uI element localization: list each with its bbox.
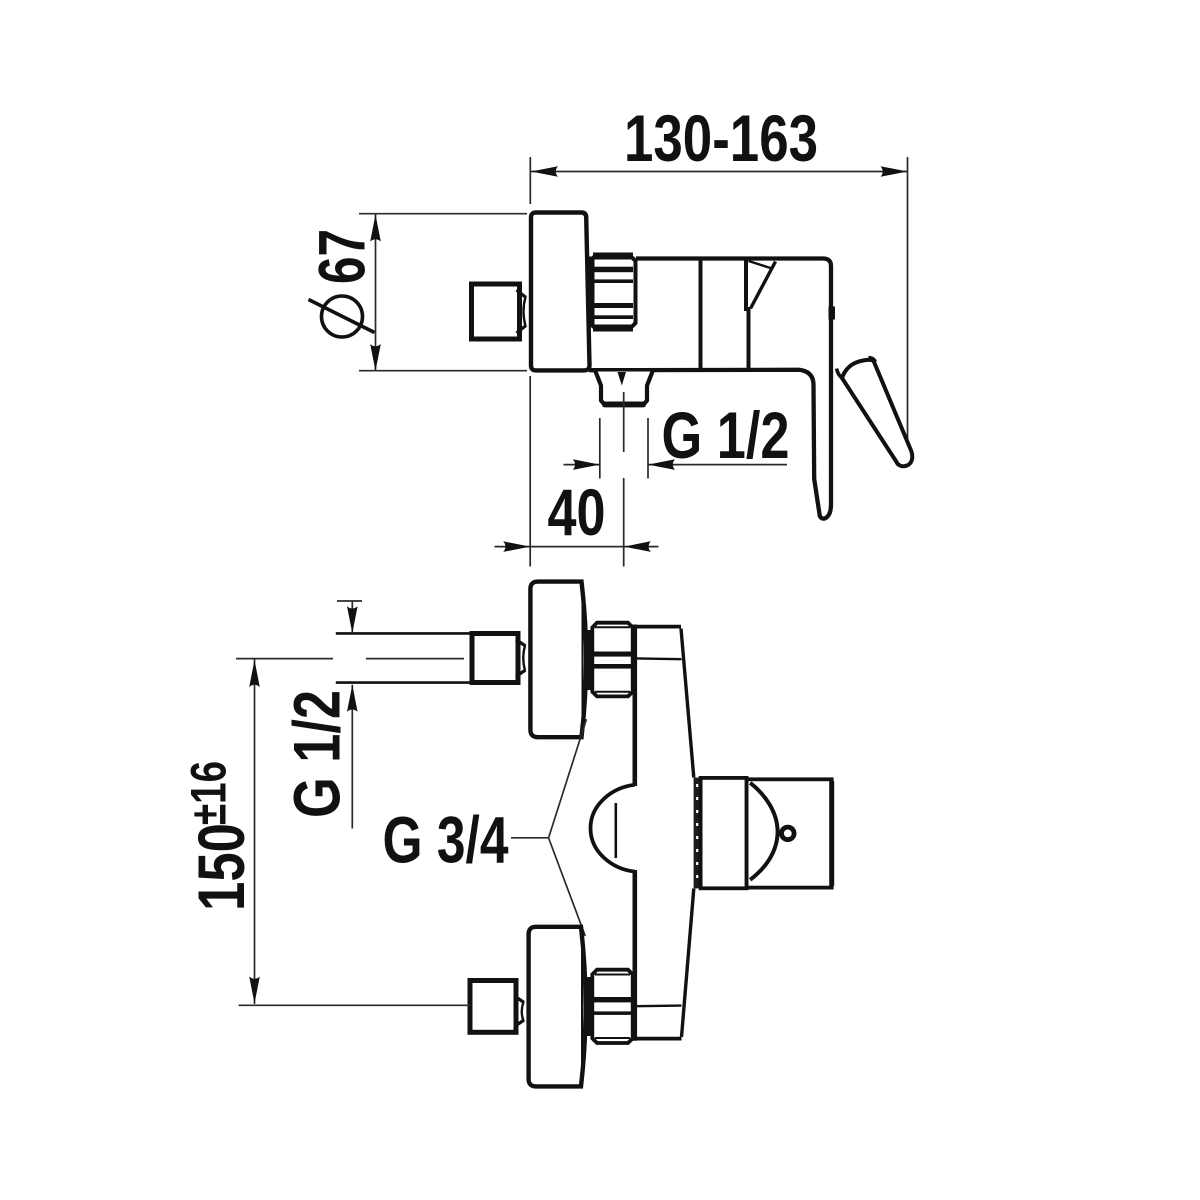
svg-text:150: 150 xyxy=(184,823,258,911)
mixer body outline with handle (side view) xyxy=(589,259,831,519)
arrowhead top of 150 xyxy=(249,660,260,687)
dimension line Ø67 vertical xyxy=(375,215,377,372)
diameter symbol circle xyxy=(322,296,363,337)
square fitting bottom (front view) xyxy=(470,981,516,1033)
union nut bottom: thread bars xyxy=(594,997,631,1002)
union nut (side view) : outline xyxy=(590,255,636,330)
handle indicator tick (side view) xyxy=(829,307,836,320)
G 1/2 dimension arrow left xyxy=(564,464,600,466)
body divider line 2 (side view) xyxy=(746,260,749,368)
mixer body (front view): left edge lower xyxy=(632,870,637,1041)
square fitting top (front view) xyxy=(472,634,518,683)
G 1/2 dimension (side view) extension lines xyxy=(599,418,601,479)
extension line Ø67 bottom xyxy=(359,370,527,372)
arrowhead bottom of Ø67 xyxy=(370,344,381,371)
mixer body (front view): top edge xyxy=(633,625,681,629)
outlet thick bottom edge xyxy=(603,402,646,408)
handle base (front view) xyxy=(701,778,747,888)
mixer body (front view): left edge upper xyxy=(632,625,637,787)
lever cap right edge thick xyxy=(829,781,834,886)
G 1/2 dimension arrow right with leader xyxy=(648,464,787,466)
pipe axis extension segments xyxy=(236,658,333,660)
svg-text:67: 67 xyxy=(305,229,379,284)
lever top-left hook xyxy=(837,369,843,379)
bottom flange right rim chord xyxy=(581,934,583,1081)
svg-text:±16: ±16 xyxy=(181,761,237,825)
handle lever cap (front view) xyxy=(747,779,832,887)
inlet pipe top (front view) xyxy=(336,632,472,635)
cartridge cover diagonal (side view) xyxy=(751,262,776,309)
lever arm (side view) xyxy=(842,360,912,466)
40 dimension extension line (wall plane) xyxy=(529,376,531,567)
union nut top: thread bars xyxy=(594,652,631,657)
body divider line 1 (side view) xyxy=(699,260,703,368)
cover wedge line (side view) xyxy=(749,261,773,269)
svg-text:G 1/2: G 1/2 xyxy=(280,690,354,818)
extension line Ø67 top xyxy=(359,213,527,215)
mixer body (front view): right contour lower xyxy=(682,889,694,1038)
lever D-curve (front view) xyxy=(750,783,777,880)
arrowhead top of Ø67 xyxy=(370,215,381,242)
mixer body (front view): right contour upper xyxy=(681,629,694,778)
lever top-right bump xyxy=(869,358,876,362)
union nut bottom (front view): outline xyxy=(592,970,632,1043)
mixer body (front view): bottom edge xyxy=(633,1037,682,1041)
fitting-to-flange connector (side view) xyxy=(517,290,527,333)
union nut bottom (front view): dark band xyxy=(586,977,593,1036)
indicator dot (front view) xyxy=(782,827,795,840)
union nut (side view) : thread bars xyxy=(593,253,633,332)
arrowhead left of 130-163 xyxy=(531,166,558,177)
outlet centerline xyxy=(623,392,625,452)
wall flange (side view) xyxy=(531,213,590,371)
union nut top: chamfer lines xyxy=(595,626,630,628)
union nut top (front view): dark band xyxy=(586,630,593,690)
wall flange bottom (front view) xyxy=(529,927,586,1087)
extension line left (wall plane) xyxy=(529,157,531,204)
G 1/2 pipe dimension vertical with arrows xyxy=(351,601,353,633)
diameter symbol slash xyxy=(309,300,375,333)
body inner line bottom (outlet axis) xyxy=(637,1004,682,1007)
svg-text:130-163: 130-163 xyxy=(624,101,818,175)
body inner line top (inlet axis) xyxy=(637,657,682,660)
dome inner face line xyxy=(614,803,617,858)
svg-text:G 3/4: G 3/4 xyxy=(383,803,509,877)
union nut (side view) : dark gap band xyxy=(587,257,595,328)
G 3/4 dome (front view) xyxy=(591,785,635,872)
extension line right xyxy=(907,157,909,445)
G 1/2 pipe dimension (front view): top tick xyxy=(337,600,362,602)
150 bottom extension line xyxy=(239,1004,470,1006)
svg-text:40: 40 xyxy=(548,475,606,549)
svg-text:G 1/2: G 1/2 xyxy=(662,398,790,472)
150 dimension line vertical xyxy=(254,660,256,1005)
G 3/4 leader lines xyxy=(511,837,549,839)
union nut top (front view): outline xyxy=(592,623,632,697)
wall flange top (front view) xyxy=(530,582,586,738)
top flange right rim chord xyxy=(582,588,584,731)
connector top (front view) xyxy=(516,640,526,677)
arrowhead bottom of 150 xyxy=(249,977,260,1004)
wall connection square fitting (side view) xyxy=(472,284,520,339)
shower outlet stub (side view) xyxy=(596,372,653,406)
40 dimension line with outside arrows xyxy=(495,546,531,548)
handle neck ring (front view) xyxy=(694,778,701,889)
arrowhead right of 130-163 xyxy=(881,166,908,177)
union nut bottom: chamfer lines xyxy=(595,974,630,976)
outlet V notch xyxy=(618,372,627,386)
dimension line 130-163 xyxy=(531,171,908,173)
connector bottom (front view) xyxy=(515,996,525,1027)
